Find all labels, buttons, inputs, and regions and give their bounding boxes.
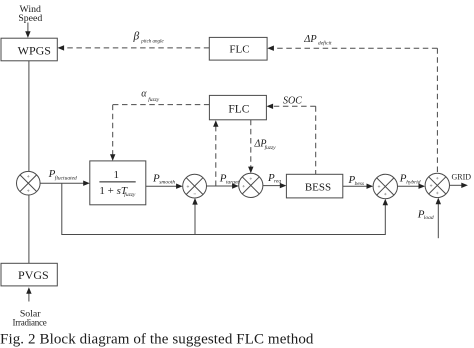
- svg-text:bess: bess: [355, 181, 364, 187]
- svg-text:req: req: [274, 179, 281, 185]
- svg-text:β: β: [133, 30, 140, 42]
- svg-text:α: α: [141, 89, 147, 100]
- svg-text:smooth: smooth: [159, 179, 175, 185]
- svg-text:WPGS: WPGS: [18, 44, 51, 58]
- svg-text:Fig. 2 Block diagram of the su: Fig. 2 Block diagram of the suggested FL…: [0, 331, 314, 347]
- svg-text:fuzzy: fuzzy: [265, 144, 277, 151]
- svg-text:FLC: FLC: [229, 44, 249, 56]
- svg-text:deficit: deficit: [318, 39, 332, 46]
- svg-text:Speed: Speed: [18, 13, 42, 24]
- svg-text:fuzzy: fuzzy: [148, 96, 160, 103]
- svg-text:SOC: SOC: [283, 96, 302, 107]
- svg-text:Irradiance: Irradiance: [13, 318, 47, 328]
- svg-text:PVGS: PVGS: [18, 268, 49, 282]
- svg-text:hybrid: hybrid: [406, 180, 421, 186]
- svg-text:fluctuated: fluctuated: [55, 175, 77, 182]
- svg-text:target: target: [226, 179, 239, 185]
- svg-text:load: load: [424, 215, 434, 221]
- svg-text:pitch angle: pitch angle: [140, 40, 164, 45]
- svg-text:ΔP: ΔP: [303, 34, 317, 45]
- svg-text:fuzzy: fuzzy: [124, 191, 136, 198]
- svg-text:1: 1: [114, 169, 120, 181]
- svg-text:BESS: BESS: [305, 181, 331, 193]
- svg-text:GRID: GRID: [452, 173, 472, 182]
- svg-text:FLC: FLC: [228, 103, 249, 115]
